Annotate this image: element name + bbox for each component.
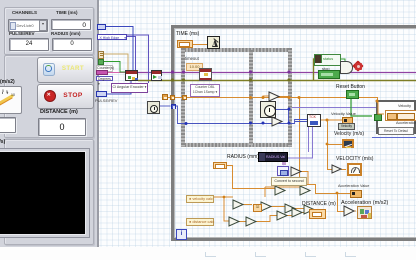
wait until next ms multiple clock	[260, 101, 276, 118]
wire orange calc v224	[224, 197, 229, 221]
unbundle status node	[314, 54, 341, 66]
faint marks bottom	[205, 252, 216, 257]
control terminal i32 (channels)	[97, 24, 106, 30]
combo channels	[8, 19, 48, 32]
field pulse	[9, 38, 49, 51]
wire orange T3 out	[243, 205, 261, 207]
label (m/s2) gauge	[0, 79, 15, 85]
label timeout	[185, 56, 199, 61]
junction dots blue	[185, 108, 291, 126]
label distance calc	[186, 218, 214, 226]
wire orange T9 out	[302, 212, 304, 214]
wire orange T7 out	[239, 221, 246, 223]
wait ms clock icon	[147, 101, 160, 114]
group box mid	[4, 55, 94, 138]
stop TF terminal	[318, 70, 340, 79]
START button	[37, 57, 94, 83]
calc triangle T8	[246, 217, 256, 226]
wire orange calc top	[300, 185, 351, 212]
wire orange vertical to calc	[299, 98, 301, 185]
divide triangle b	[272, 117, 282, 126]
label Acceleration (m/s2)	[341, 200, 388, 206]
label stop	[322, 66, 330, 71]
wire enum violet	[127, 35, 149, 83]
calc triangle T6	[277, 211, 287, 220]
velocity chart	[0, 148, 90, 238]
front panel	[0, 0, 99, 247]
constant 10.00	[186, 63, 203, 72]
terminal TIME orange	[177, 40, 193, 48]
multiply triangle a	[269, 92, 279, 101]
reset to default box	[378, 127, 414, 135]
local variable write acceleration	[350, 190, 362, 198]
polymorphic selector CI Angular Encoder	[111, 83, 148, 93]
calc triangle T3	[233, 200, 243, 209]
calc triangle T7	[229, 217, 239, 226]
bottom white strip	[0, 247, 416, 260]
orange tunnel 1	[162, 94, 168, 100]
radius terminal	[213, 162, 227, 169]
pink constant	[96, 70, 108, 75]
stop sign red	[352, 60, 363, 71]
wire olive branch to unbundle	[313, 59, 316, 80]
wire orange T6 out	[287, 215, 292, 217]
conversion triangle d	[344, 206, 354, 216]
field distance	[38, 118, 86, 136]
calc triangle T9	[292, 208, 302, 217]
DAQmx read VI	[199, 68, 212, 81]
control terminal pulse/rev	[96, 91, 107, 97]
wire orange T8 out	[256, 216, 277, 222]
wire orange acc tri	[354, 210, 356, 212]
wire orange vel gauge drop	[328, 120, 347, 170]
wire daqmx name tan	[104, 54, 128, 70]
group box bottom (chart)	[4, 139, 94, 245]
wire blue frame1	[174, 106, 288, 124]
junction dots purple	[171, 70, 291, 73]
distance indicator terminal	[309, 209, 326, 219]
label RADIUS (mm)	[51, 31, 81, 36]
orange tunnel on sequence border	[182, 95, 187, 101]
group box top (settings)	[4, 7, 94, 55]
calc triangle T1	[275, 186, 285, 195]
block diagram grid background	[95, 0, 416, 248]
numeric const 32	[253, 204, 262, 212]
wire orange tri a	[263, 96, 288, 98]
DAQmx start task VI	[151, 70, 162, 81]
calc triangle T10	[304, 205, 314, 214]
label CHANNELS	[12, 10, 37, 15]
calc triangle T2	[300, 186, 310, 195]
or gate	[340, 61, 353, 74]
iteration terminal i	[176, 229, 187, 240]
calc triangle T4	[261, 202, 271, 211]
label RADIUS (mm) bd	[227, 154, 259, 160]
label TIME (ms) bd	[176, 31, 199, 37]
case selector terminal	[374, 114, 382, 122]
acceleration indicator icon	[357, 206, 372, 219]
wire orange calc h197	[205, 196, 233, 198]
field radius	[52, 38, 92, 51]
chart terminal icon	[342, 139, 354, 148]
wire purple radius prop	[283, 160, 285, 165]
wire orange case inner	[378, 102, 384, 114]
wire task purple main	[138, 72, 416, 74]
wire orange calc top2	[265, 187, 300, 197]
property node RADIUS.Val	[258, 152, 288, 162]
wire violet tck down	[288, 127, 313, 158]
green constant	[98, 59, 104, 65]
label Convert to second	[271, 177, 307, 186]
label Reset Button	[336, 84, 365, 90]
reset TF terminal	[346, 90, 359, 99]
wire violet long to case	[292, 107, 376, 109]
case structure (reset)	[376, 100, 416, 134]
label Velocity (m/s)	[334, 131, 364, 137]
sequence frame divider	[249, 50, 253, 145]
label VELOCITY (m/s)	[336, 156, 373, 162]
multiply triangle e	[291, 167, 301, 176]
wire channels blue	[106, 27, 133, 71]
wire orange radius	[227, 166, 275, 189]
blue tunnel	[171, 104, 176, 109]
orange tunnel on loop border	[170, 95, 175, 101]
field time	[51, 19, 91, 30]
label Acceleration Value	[338, 184, 369, 188]
junction dots olive	[171, 78, 291, 81]
wire orange T5 out	[295, 208, 304, 210]
DAQmx create channel VI	[125, 70, 138, 81]
label velocity calc	[186, 195, 214, 203]
gauge terminal icon	[347, 163, 362, 176]
wire error olive main	[138, 80, 416, 82]
label Velocity Value	[331, 111, 356, 116]
wire blue to tck	[289, 120, 307, 124]
blue wire edge (below case)	[372, 137, 416, 138]
conversion triangle c	[332, 165, 341, 173]
label PULSE/REV (bd)	[95, 98, 117, 103]
wire pulse blue	[107, 81, 131, 94]
junction dots orange	[223, 96, 379, 198]
label Counter(s)	[96, 65, 113, 72]
label Acceleration (case)	[396, 121, 416, 125]
wire pink string	[108, 72, 125, 74]
wire orange tri e out	[301, 172, 308, 185]
wire time orange	[193, 44, 207, 46]
local variable velocity box	[338, 123, 355, 130]
TCK convert icon	[307, 114, 321, 127]
small numeric below gauge	[0, 117, 16, 133]
wire orange tck to property	[321, 119, 342, 121]
ring Degrees	[96, 76, 113, 82]
daqmx name constant	[98, 51, 104, 59]
enum constant X High Edge	[97, 34, 127, 41]
wire blue clockB out	[276, 110, 289, 124]
label DISTANCE (m) bd	[302, 201, 336, 207]
wire green const	[104, 62, 126, 73]
cluster local velocity	[385, 110, 416, 121]
while loop border	[171, 25, 416, 241]
label TIME (ms)	[56, 10, 78, 15]
wire blue clockA	[160, 105, 171, 107]
convert to second icon	[277, 166, 289, 176]
STOP button	[37, 84, 94, 109]
selector Counter DBL 1Chan 1Samp	[190, 84, 220, 97]
flat sequence structure (film strip)	[181, 48, 292, 52]
wire orange main counts	[167, 98, 378, 104]
local variable write velocity	[342, 117, 353, 124]
calc triangle T5	[285, 204, 295, 213]
label Velocity (case)	[398, 104, 411, 108]
label DISTANCE (m)	[40, 109, 78, 115]
label VELOCITY (m/s) clipped	[0, 139, 5, 145]
wire orange T4 out	[271, 206, 285, 208]
metronome icon	[207, 36, 220, 49]
wire green stop logic	[338, 59, 353, 74]
acceleration gauge	[0, 86, 22, 114]
label PULSE/REV	[9, 31, 35, 36]
wire green reset	[351, 98, 372, 116]
